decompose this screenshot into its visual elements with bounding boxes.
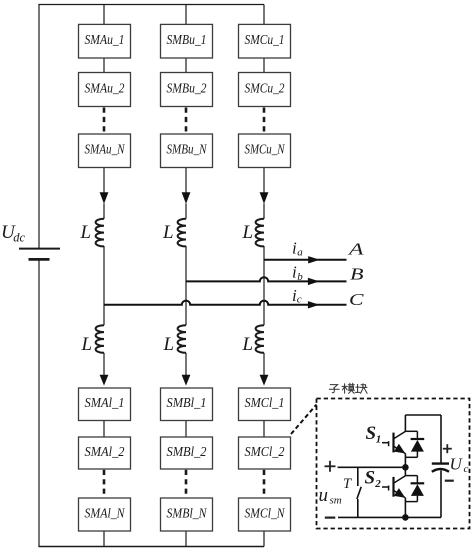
- svg-text:S: S: [365, 468, 376, 489]
- svg-text:B: B: [350, 265, 364, 284]
- svg-text:T: T: [343, 476, 352, 492]
- svg-text:2: 2: [374, 478, 381, 490]
- svg-text:SMBu_1: SMBu_1: [167, 32, 207, 47]
- svg-text:S: S: [366, 423, 377, 444]
- svg-text:SMAu_1: SMAu_1: [85, 32, 125, 47]
- svg-text:A: A: [348, 240, 365, 259]
- svg-text:b: b: [297, 271, 303, 283]
- svg-text:SMAl_N: SMAl_N: [85, 505, 126, 520]
- svg-text:sm: sm: [330, 495, 342, 507]
- svg-text:i: i: [292, 263, 297, 282]
- svg-text:i: i: [292, 239, 297, 258]
- svg-text:SMBl_1: SMBl_1: [167, 395, 207, 410]
- svg-text:SMBl_2: SMBl_2: [167, 444, 207, 459]
- svg-text:SMAu_N: SMAu_N: [85, 142, 126, 157]
- svg-text:a: a: [297, 247, 303, 259]
- svg-text:SMCl_2: SMCl_2: [245, 444, 285, 459]
- svg-text:c: c: [297, 293, 302, 305]
- svg-text:SMAl_1: SMAl_1: [85, 395, 125, 410]
- svg-text:L: L: [80, 222, 92, 243]
- svg-text:1: 1: [376, 433, 382, 445]
- svg-text:SMCu_N: SMCu_N: [245, 142, 286, 157]
- svg-text:U: U: [450, 455, 464, 474]
- svg-text:L: L: [162, 222, 174, 243]
- svg-text:L: L: [81, 334, 93, 355]
- svg-text:SMCu_1: SMCu_1: [245, 32, 285, 47]
- svg-text:SMBu_2: SMBu_2: [167, 80, 207, 95]
- svg-text:C: C: [349, 290, 364, 309]
- svg-text:SMAu_2: SMAu_2: [85, 80, 125, 95]
- svg-text:SMBu_N: SMBu_N: [167, 142, 208, 157]
- svg-text:u: u: [319, 485, 329, 506]
- svg-text:dc: dc: [13, 231, 25, 245]
- svg-text:SMCl_1: SMCl_1: [245, 395, 285, 410]
- svg-text:SMBl_N: SMBl_N: [167, 505, 208, 520]
- svg-text:L: L: [242, 222, 254, 243]
- svg-text:SMCu_2: SMCu_2: [245, 80, 285, 95]
- svg-text:L: L: [163, 334, 175, 355]
- svg-text:SMAl_2: SMAl_2: [85, 444, 125, 459]
- svg-text:c: c: [464, 463, 469, 475]
- svg-text:L: L: [242, 334, 254, 355]
- svg-text:SMCl_N: SMCl_N: [245, 505, 286, 520]
